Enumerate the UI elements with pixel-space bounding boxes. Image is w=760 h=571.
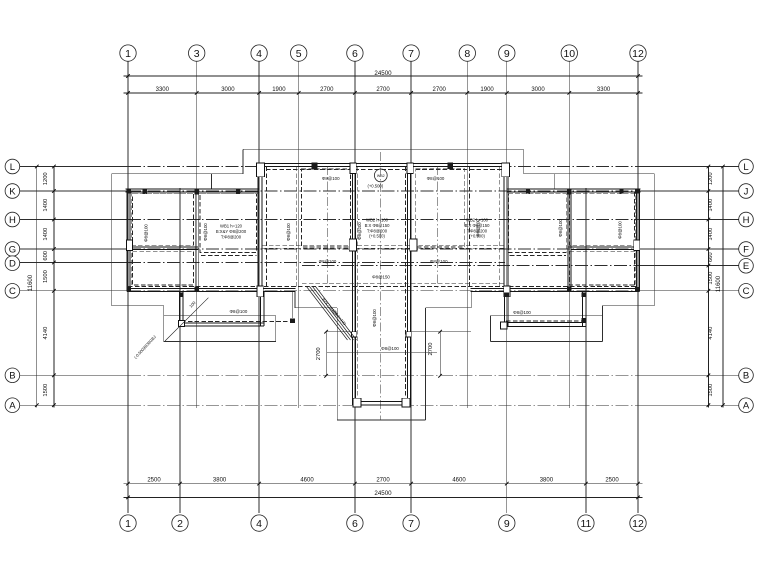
svg-text:9: 9 — [504, 48, 510, 60]
svg-text:Φ8@100: Φ8@100 — [230, 309, 248, 314]
svg-text:Φ8@100: Φ8@100 — [322, 176, 340, 181]
svg-text:B:X&Y Φ8@200: B:X&Y Φ8@200 — [216, 229, 247, 234]
svg-text:24500: 24500 — [374, 490, 392, 497]
svg-text:2700: 2700 — [376, 477, 390, 483]
svg-text:1200: 1200 — [708, 172, 714, 185]
svg-text:Φ8@100: Φ8@100 — [430, 259, 448, 264]
svg-text:1900: 1900 — [480, 87, 494, 93]
svg-text:11: 11 — [580, 518, 591, 530]
svg-text:L: L — [10, 162, 15, 173]
svg-text:WB2: WB2 — [377, 174, 385, 178]
svg-text:2700: 2700 — [376, 87, 390, 93]
svg-text:11600: 11600 — [28, 274, 34, 291]
svg-text:3000: 3000 — [531, 87, 545, 93]
svg-text:2700: 2700 — [428, 343, 434, 356]
svg-text:12: 12 — [632, 518, 644, 530]
svg-text:(+0.500): (+0.500) — [469, 234, 485, 239]
svg-text:Φ8@150: Φ8@150 — [372, 275, 390, 280]
svg-text:600: 600 — [43, 251, 49, 261]
svg-text:Φ8@100: Φ8@100 — [286, 223, 291, 241]
svg-text:Φ8@100: Φ8@100 — [144, 224, 149, 242]
svg-text:Φ8@100: Φ8@100 — [558, 219, 563, 237]
svg-text:T:Φ8@200: T:Φ8@200 — [467, 228, 488, 233]
svg-text:2: 2 — [177, 518, 183, 530]
svg-text:1: 1 — [125, 518, 131, 530]
svg-text:6: 6 — [352, 48, 358, 60]
svg-text:3800: 3800 — [213, 477, 227, 483]
svg-text:4: 4 — [256, 48, 262, 60]
svg-text:3: 3 — [194, 48, 200, 60]
svg-text:B: B — [9, 371, 15, 382]
svg-text:2700: 2700 — [316, 347, 322, 360]
svg-text:A: A — [9, 401, 16, 412]
svg-text:1400: 1400 — [708, 228, 714, 241]
svg-text:C: C — [743, 286, 750, 297]
svg-text:3300: 3300 — [156, 87, 170, 93]
svg-text:H: H — [743, 215, 750, 226]
svg-text:660: 660 — [708, 252, 714, 262]
svg-text:3000: 3000 — [221, 87, 235, 93]
svg-text:Φ8@100: Φ8@100 — [427, 176, 445, 181]
svg-text:4: 4 — [256, 518, 262, 530]
svg-text:2500: 2500 — [147, 477, 161, 483]
svg-text:6: 6 — [352, 518, 358, 530]
svg-text:D: D — [9, 259, 16, 270]
svg-text:Φ8@100: Φ8@100 — [513, 310, 531, 315]
svg-text:3800: 3800 — [540, 477, 554, 483]
svg-text:1500: 1500 — [708, 272, 714, 285]
svg-text:2500: 2500 — [605, 477, 619, 483]
svg-text:F: F — [743, 244, 749, 255]
svg-text:H: H — [9, 215, 16, 226]
svg-text:1200: 1200 — [43, 172, 49, 185]
svg-text:WB1 h=120: WB1 h=120 — [220, 224, 243, 229]
svg-text:1900: 1900 — [272, 87, 286, 93]
svg-text:12: 12 — [632, 48, 644, 60]
svg-text:7: 7 — [408, 518, 414, 530]
svg-text:WB2 h=100: WB2 h=100 — [366, 218, 389, 223]
svg-text:Φ8@100: Φ8@100 — [381, 346, 399, 351]
svg-text:T:Φ8@200: T:Φ8@200 — [221, 234, 242, 239]
svg-text:5: 5 — [296, 48, 302, 60]
svg-text:4600: 4600 — [452, 477, 466, 483]
svg-text:2700: 2700 — [320, 87, 334, 93]
svg-text:Φ8@100: Φ8@100 — [372, 309, 377, 327]
svg-text:4140: 4140 — [708, 327, 714, 340]
svg-text:K: K — [9, 186, 16, 197]
svg-text:7: 7 — [408, 48, 414, 60]
svg-text:9: 9 — [504, 518, 510, 530]
svg-text:11600: 11600 — [716, 275, 722, 292]
svg-text:Φ8@100: Φ8@100 — [618, 221, 623, 239]
svg-text:B:X Φ8@150: B:X Φ8@150 — [365, 223, 390, 228]
svg-text:G: G — [9, 244, 16, 255]
svg-text:E: E — [743, 261, 749, 272]
svg-text:A: A — [743, 401, 750, 412]
svg-text:(+0.500): (+0.500) — [369, 234, 385, 239]
svg-text:8: 8 — [464, 48, 470, 60]
svg-text:24500: 24500 — [374, 70, 392, 77]
svg-text:T:Φ8@200: T:Φ8@200 — [367, 228, 388, 233]
svg-text:L: L — [743, 162, 748, 173]
svg-text:WB2 h=100: WB2 h=100 — [466, 218, 489, 223]
svg-text:B:X Φ8@150: B:X Φ8@150 — [465, 223, 490, 228]
svg-text:1: 1 — [125, 48, 131, 60]
svg-text:4600: 4600 — [300, 477, 314, 483]
svg-text:Φ8@100: Φ8@100 — [203, 223, 208, 241]
svg-text:B: B — [743, 371, 749, 382]
svg-text:2700: 2700 — [433, 87, 447, 93]
svg-text:1500: 1500 — [43, 384, 49, 397]
svg-text:J: J — [744, 186, 749, 197]
svg-text:C: C — [9, 286, 16, 297]
svg-text:1500: 1500 — [43, 270, 49, 283]
svg-text:10: 10 — [563, 48, 575, 60]
svg-text:4140: 4140 — [43, 327, 49, 340]
svg-text:1400: 1400 — [43, 228, 49, 241]
svg-text:1500: 1500 — [708, 384, 714, 397]
svg-text:Φ8@200: Φ8@200 — [357, 222, 362, 240]
svg-text:1400: 1400 — [708, 199, 714, 212]
svg-text:Φ8@100: Φ8@100 — [319, 259, 337, 264]
svg-text:(+0.500): (+0.500) — [367, 184, 383, 189]
svg-text:3300: 3300 — [597, 87, 611, 93]
svg-text:1400: 1400 — [43, 199, 49, 212]
